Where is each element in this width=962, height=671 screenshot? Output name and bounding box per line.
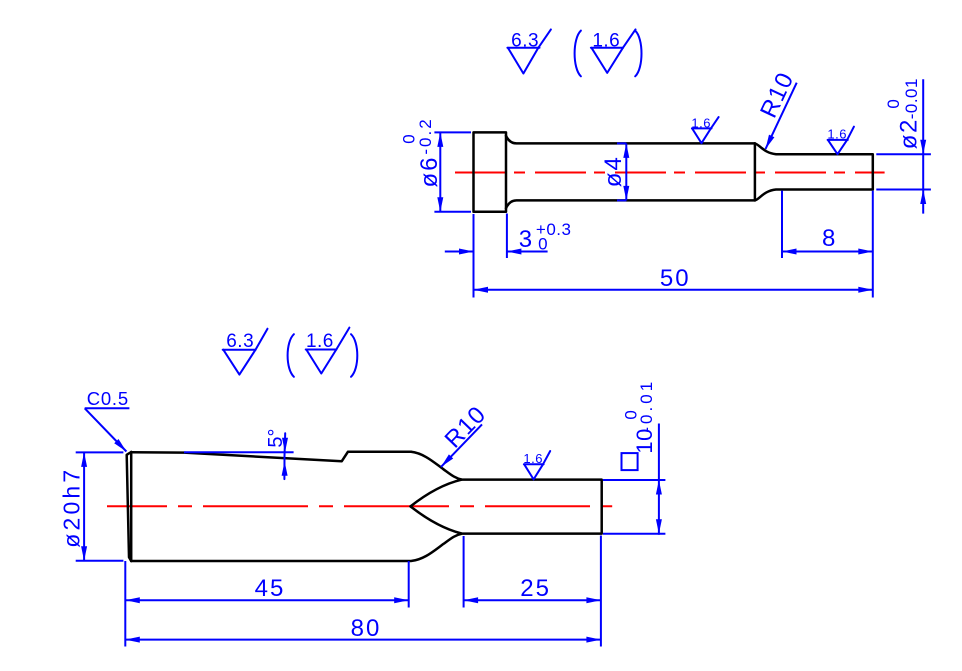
svg-text:C0.5: C0.5 <box>87 388 129 409</box>
svg-text:50: 50 <box>660 265 691 292</box>
svg-text:ø6: ø6 <box>416 155 443 187</box>
svg-text:1.6: 1.6 <box>827 127 847 142</box>
svg-text:-0.01: -0.01 <box>902 78 921 119</box>
svg-text:80: 80 <box>351 615 382 642</box>
svg-text:45: 45 <box>255 575 286 602</box>
svg-text:ø4: ø4 <box>600 155 627 187</box>
svg-text:ø20h7: ø20h7 <box>59 467 85 548</box>
svg-text:1.6: 1.6 <box>306 331 334 352</box>
svg-text:ø2: ø2 <box>895 118 922 149</box>
svg-text:0: 0 <box>538 235 547 254</box>
svg-text:6.3: 6.3 <box>226 331 254 352</box>
svg-text:25: 25 <box>520 575 551 602</box>
svg-text:8: 8 <box>822 225 835 252</box>
svg-text:-0.2: -0.2 <box>416 117 435 154</box>
svg-text:0: 0 <box>399 134 418 143</box>
svg-text:3: 3 <box>519 226 532 253</box>
svg-text:-0.01: -0.01 <box>637 379 656 433</box>
svg-text:6.3: 6.3 <box>511 30 539 51</box>
svg-text:0: 0 <box>621 410 640 419</box>
svg-text:5°: 5° <box>265 428 287 447</box>
svg-text:0: 0 <box>884 99 903 108</box>
svg-text:1.6: 1.6 <box>523 451 543 466</box>
svg-text:1.6: 1.6 <box>592 30 620 51</box>
svg-text:1.6: 1.6 <box>691 116 711 131</box>
